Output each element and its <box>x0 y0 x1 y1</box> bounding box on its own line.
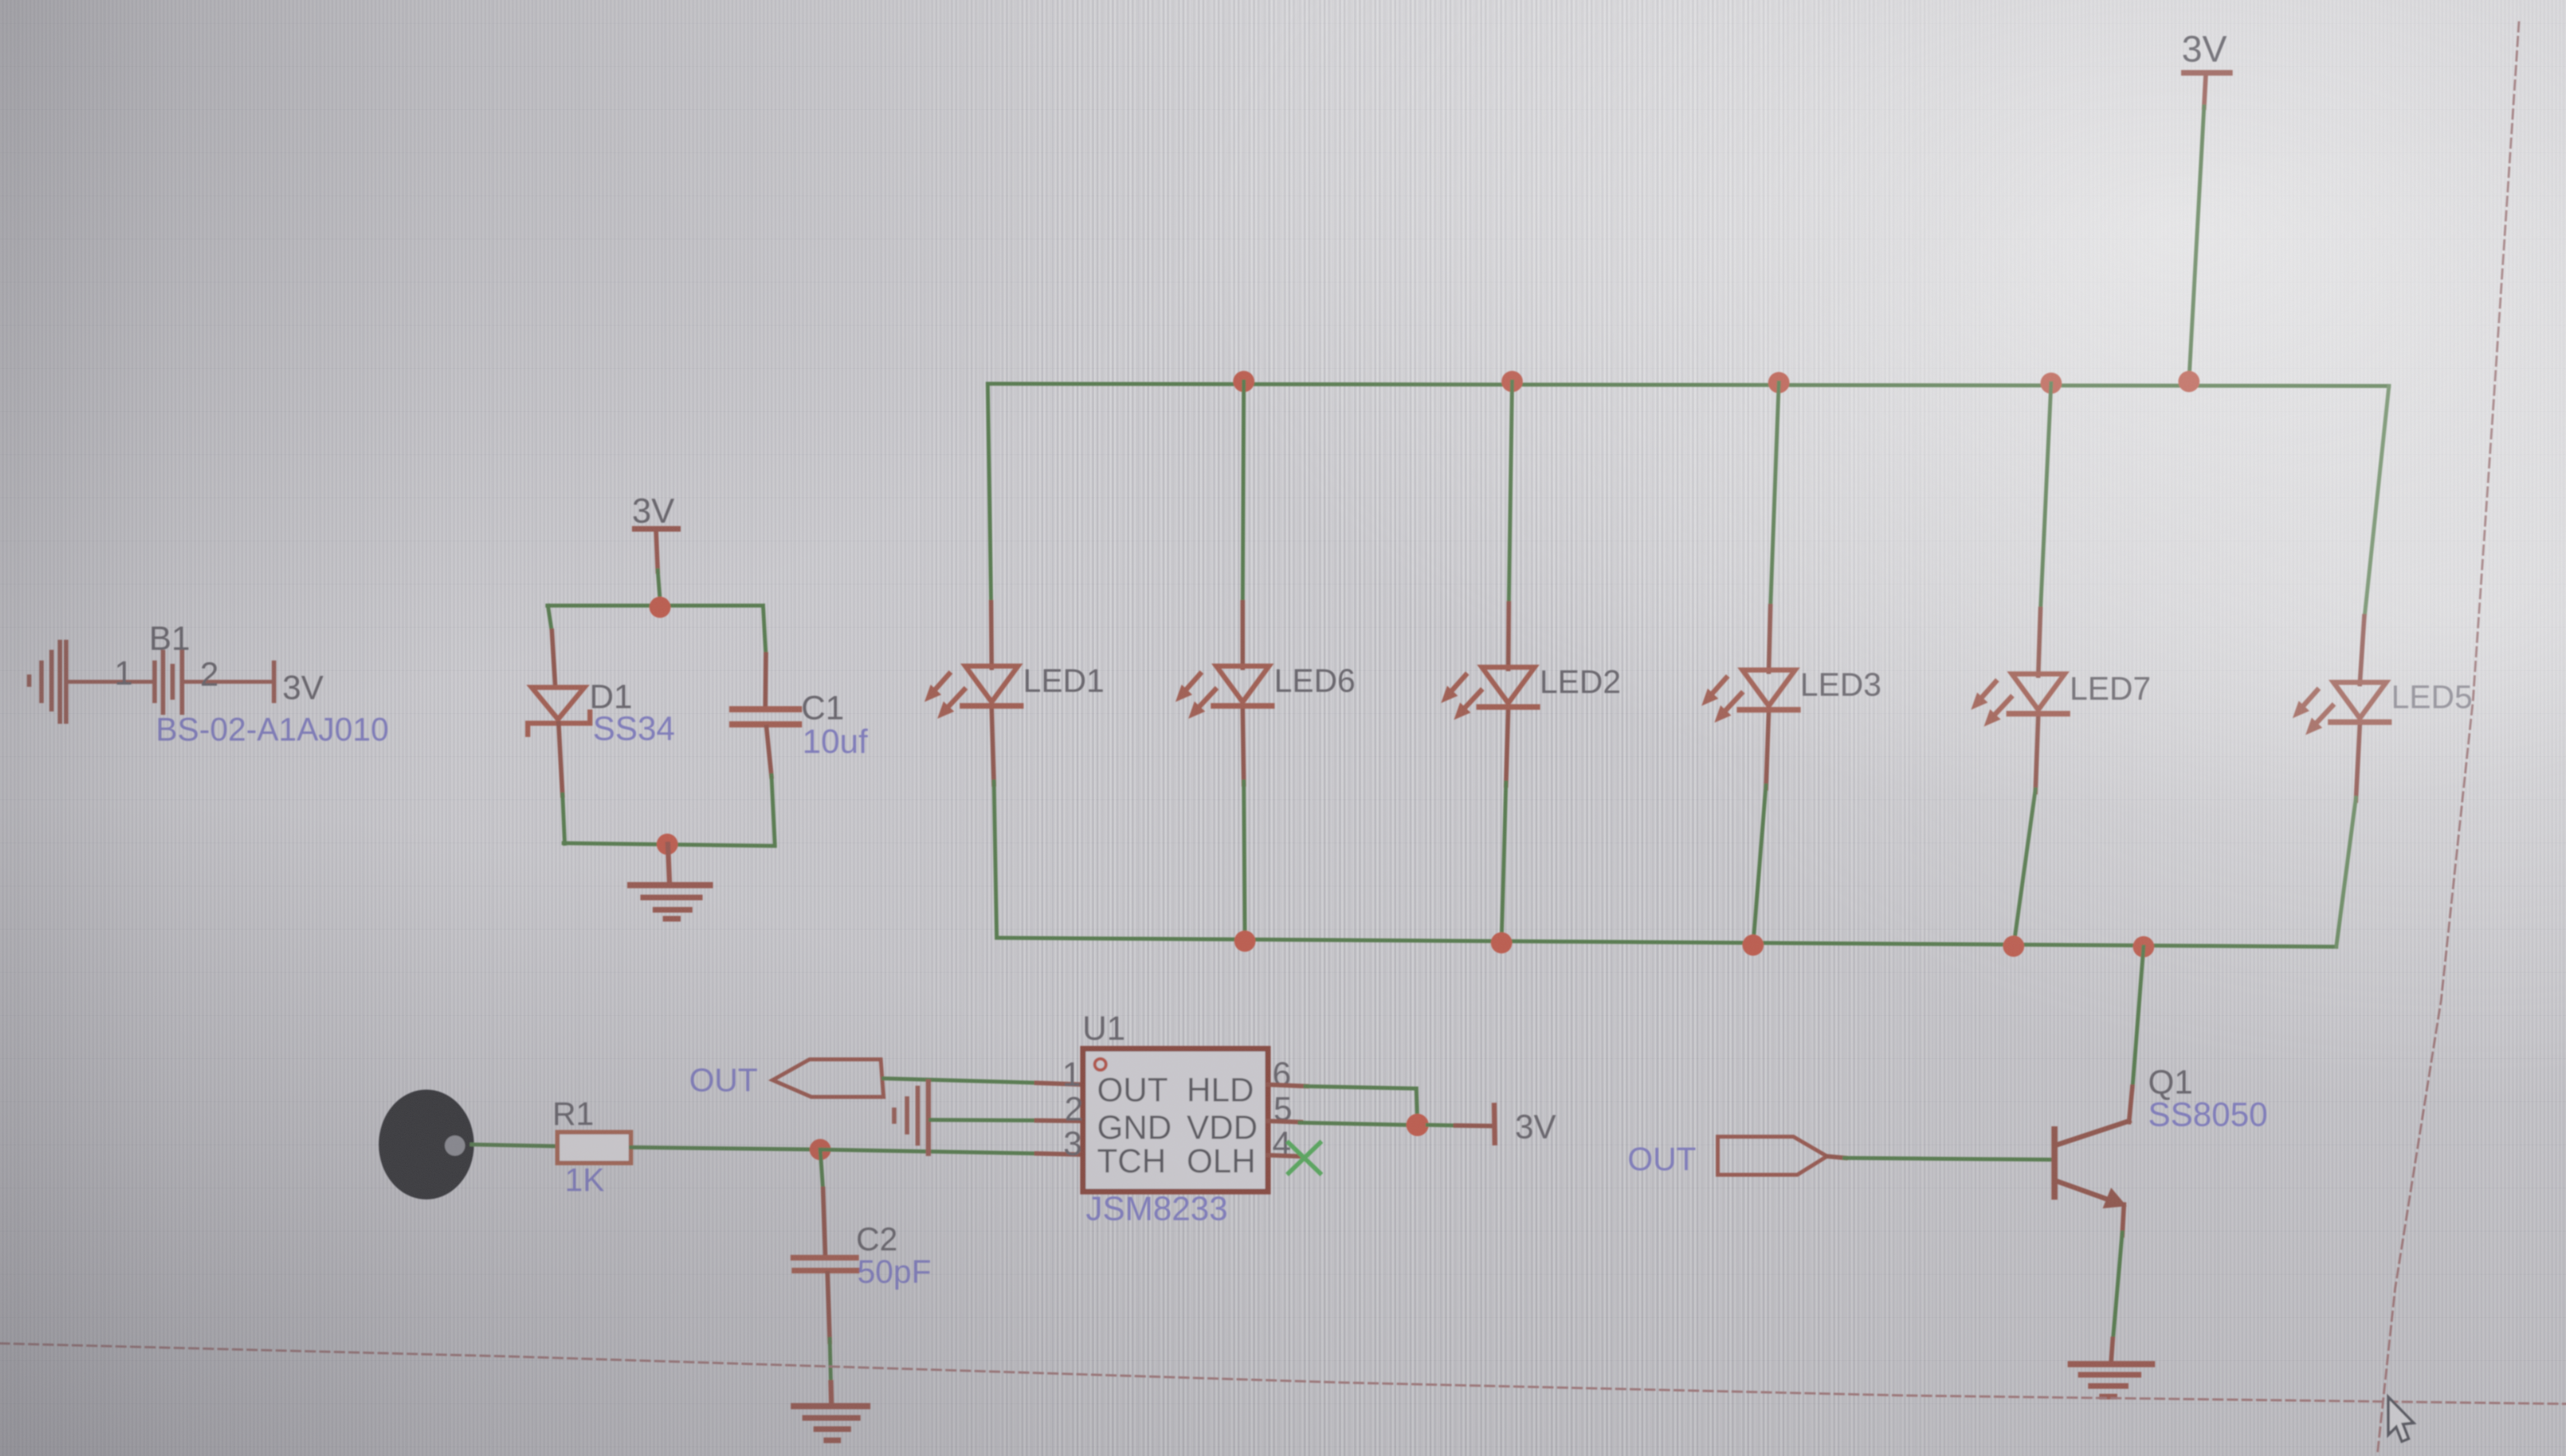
Q1 base bar <box>2052 1129 2058 1197</box>
sheet border dashed vertical <box>2377 22 2519 1456</box>
wire bottom of D1/C1 loop <box>564 843 775 846</box>
wire LED1 branch <box>988 384 992 666</box>
LED7 <box>1971 674 2067 727</box>
resistor R1 1K <box>557 1132 631 1163</box>
LED2 <box>1441 667 1537 720</box>
battery B1 <box>29 620 389 748</box>
3V stem <box>656 532 658 571</box>
node junction bottom rail LED2 <box>1491 932 1512 953</box>
wire LED7 branch <box>2038 383 2051 674</box>
wire C2 bottom lead <box>828 1273 830 1342</box>
wire VDD node to 3V <box>1428 1125 1457 1125</box>
wire 3V to node <box>658 570 660 599</box>
wire antenna to U1 pin2 <box>931 1120 1039 1120</box>
wire C2 branch <box>820 1150 823 1190</box>
node junction above D1 <box>649 597 671 618</box>
wire pin5 to VDD node <box>1300 1123 1407 1125</box>
wire OUT flag to Q1 base <box>1827 1156 1846 1158</box>
Q1 emitter arrowhead <box>2103 1188 2127 1208</box>
wire C1 branch upper <box>763 606 766 655</box>
wire LED cathode bottom rail <box>997 938 2336 947</box>
wire LED3 branch <box>1769 383 1779 670</box>
wire OUT flag to U1 pin1 <box>884 1078 1039 1083</box>
wire B1 pin1 lead <box>67 680 154 684</box>
wire D1 branch lower <box>563 794 565 844</box>
battery B1 pin 2 end bar <box>272 663 276 701</box>
battery B1 cell-stack icon <box>29 642 66 722</box>
net flag OUT (right) <box>1718 1137 1827 1175</box>
LED5 <box>2293 682 2389 735</box>
wire node to U1 pin3 <box>820 1150 1038 1153</box>
touch pad (black disc) <box>379 1090 474 1199</box>
ground GND2 (below C2) <box>794 1383 867 1440</box>
wire LED2 branch <box>1508 382 1512 667</box>
wire C1 branch lower <box>771 775 775 845</box>
node junction VDD <box>1406 1114 1429 1136</box>
wire U1 pin5 stub <box>1268 1121 1301 1122</box>
wire LED6 branch <box>1243 382 1244 666</box>
node junction below D1 <box>657 834 678 855</box>
3V stem <box>2204 76 2206 108</box>
node junction top rail LED7 <box>2040 373 2062 394</box>
transistor Q1 SS8050 <box>2054 1121 2129 1208</box>
power flag 3V (top right) <box>2182 28 2230 382</box>
wire C2 top lead <box>823 1189 825 1255</box>
mouse cursor <box>2388 1397 2414 1441</box>
diode D1 SS34 <box>528 687 590 734</box>
ground GND3 (below Q1) <box>2071 1364 2152 1397</box>
wire D1 anode lead <box>552 631 555 686</box>
wire C2 to ground <box>830 1339 831 1384</box>
node junction top rail LED2 <box>1502 371 1523 392</box>
power flag 3V (above D1) <box>632 492 678 599</box>
sheet border dashed horizontal <box>0 1343 2566 1404</box>
3V bar <box>635 526 678 532</box>
LED1 <box>924 666 1021 719</box>
wire U1 pin2 stub <box>1036 1120 1083 1121</box>
wire B1 pin2 lead <box>184 680 272 684</box>
node junction top rail 3V drop <box>2178 371 2200 392</box>
wire C1 bottom lead <box>766 727 771 776</box>
wire top of D1/C1 loop <box>547 604 763 608</box>
Q1 emitter diagonal <box>2056 1181 2116 1202</box>
LED3 <box>1702 670 1798 723</box>
node junction bottom rail LED6 <box>1234 931 1256 952</box>
battery B1 cell plates <box>161 652 165 713</box>
capacitor C2 50pF <box>793 1258 857 1271</box>
wire U1 pin6 stub <box>1268 1085 1307 1086</box>
wire U1 pin3 stub <box>1036 1153 1083 1155</box>
wire D1 cathode lead <box>559 723 563 796</box>
wire 3V down to LED rail <box>2189 106 2204 382</box>
touch antenna icon at pin2 <box>894 1082 928 1153</box>
node junction top rail LED6 <box>1233 371 1254 392</box>
wire corner down to VDD node <box>1416 1088 1417 1124</box>
IC U1 JSM8233 <box>1062 1010 1292 1227</box>
3V bar <box>2184 70 2230 76</box>
node junction top rail LED3 <box>1768 372 1789 393</box>
wire Q1 collector to bottom rail <box>2132 947 2144 1090</box>
capacitor C1 <box>732 709 799 724</box>
U1 pin1 marker dot <box>1095 1059 1106 1070</box>
node junction bottom rail LED3 <box>1742 934 1764 956</box>
power flag 3V (right of U1) <box>1494 1105 1495 1143</box>
wire U1 pin1 stub <box>1036 1083 1083 1085</box>
LED6 <box>1175 666 1272 719</box>
net flag OUT (left) <box>773 1059 884 1097</box>
Q1 collector diagonal <box>2056 1121 2129 1145</box>
wire D1 branch upper <box>548 606 552 632</box>
node junction R1/C2/TCH <box>810 1139 831 1160</box>
node junction bottom rail Q1 <box>2133 936 2154 957</box>
wire touchpad to R1 <box>472 1145 558 1146</box>
no-connect X at pin4 <box>1289 1143 1320 1173</box>
wire LED5 branch <box>2360 386 2389 682</box>
ground GND1 (below D1/C1) <box>630 844 710 919</box>
wire Q1 emitter down <box>2122 1204 2124 1235</box>
wire pin6 to corner <box>1305 1086 1416 1088</box>
wire U1 pin4 stub <box>1268 1155 1299 1156</box>
wire LED anode top rail <box>988 384 2389 386</box>
wire R1 to node <box>631 1147 820 1150</box>
wire C1 top lead <box>765 654 766 707</box>
battery B1 pin 1 plate <box>152 663 157 701</box>
node junction bottom rail LED7 <box>2003 936 2024 957</box>
